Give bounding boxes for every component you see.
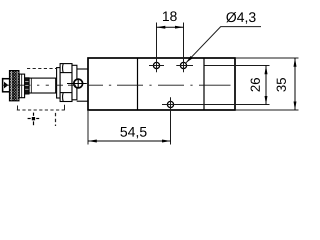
divider 2 (203, 58, 205, 110)
end cap bracket (left tip) (2, 78, 9, 93)
leader Ø4,3 (186, 27, 261, 63)
bottom hole (167, 101, 173, 107)
screw tip triangle (4, 82, 8, 89)
value label 18 (163, 11, 177, 21)
dashed vertical stub (55, 113, 57, 126)
phantom dashed line bottom with ticks (17, 109, 65, 111)
target cross marker (28, 113, 40, 126)
valve body outline (88, 58, 235, 110)
divider 1 (137, 58, 139, 110)
threaded collar (dark) (25, 78, 29, 94)
value label 26 (251, 78, 260, 91)
dim 35 extension lines (235, 57, 299, 59)
leader arrowhead at hole (186, 56, 193, 63)
slotted screw head (74, 79, 83, 88)
dim 54,5 line (88, 140, 171, 142)
value label Ø4,3 (226, 12, 255, 24)
dim 54,5 extension lines (87, 111, 89, 145)
top-right hole (180, 62, 186, 68)
top-left hole (153, 62, 159, 68)
value label 35 (277, 78, 286, 92)
flange plate (57, 68, 61, 98)
dim 26 extension lines (205, 65, 270, 67)
dim 26 line (265, 66, 267, 105)
phantom dashed line top (27, 68, 57, 70)
dim 18: extension lines (156, 23, 158, 73)
centerline (axis) (2, 84, 231, 86)
clamp block (upper & lower cylinders + web) (60, 64, 77, 102)
washer (19, 74, 24, 98)
shaft (29, 78, 56, 93)
neck between clamp and body (77, 69, 88, 101)
dim 18: dimension line with arrows (157, 26, 184, 28)
value label 54,5 (120, 127, 146, 138)
dim 35 line (294, 58, 296, 110)
knurled knob (9, 71, 19, 101)
